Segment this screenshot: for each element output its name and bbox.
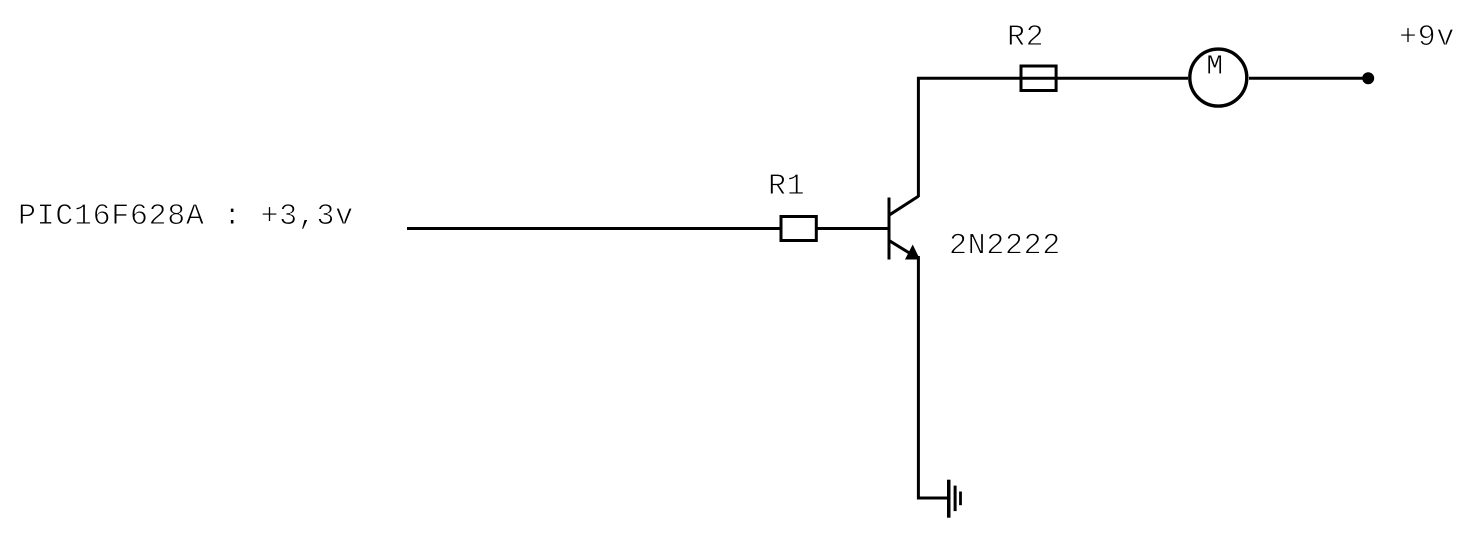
resistor R1 xyxy=(781,217,816,241)
label M xyxy=(1208,55,1221,73)
label R1 xyxy=(770,174,803,194)
node +9v junction dot xyxy=(1362,72,1374,84)
label 2N2222 xyxy=(951,233,1058,253)
wire through R2 to motor xyxy=(1020,77,1189,80)
wire motor to +9v node xyxy=(1249,77,1368,80)
transistor Q1 2N2222 xyxy=(888,196,921,259)
wire emitter to ground xyxy=(918,256,947,498)
collector stroke xyxy=(889,196,918,215)
wire collector to R2 xyxy=(918,78,1021,197)
base bar xyxy=(888,198,891,260)
ground xyxy=(947,480,962,518)
label R2 xyxy=(1009,25,1041,45)
emitter arrowhead xyxy=(905,245,920,260)
emitter stroke xyxy=(890,241,912,254)
wire base input xyxy=(407,227,781,230)
net label PIC16F628A : +3,3v xyxy=(20,204,352,229)
label +9v xyxy=(1401,25,1454,45)
motor M1 xyxy=(1190,49,1247,106)
resistor R2 xyxy=(1021,66,1056,91)
wire R1 to base xyxy=(817,227,888,230)
